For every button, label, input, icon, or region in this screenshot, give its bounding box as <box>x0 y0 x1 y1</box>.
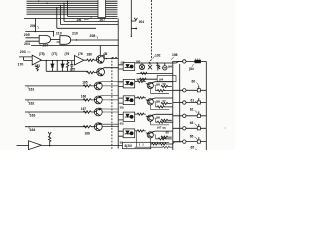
label 173 <box>35 64 41 68</box>
label 164 <box>30 128 36 132</box>
label 175b <box>70 68 75 72</box>
pad P6 <box>197 140 200 143</box>
svg-text:63: 63 <box>190 121 194 125</box>
label 205 <box>24 33 30 37</box>
svg-text:65: 65 <box>191 146 195 150</box>
wire Q1 collector to rail <box>102 55 119 59</box>
label 60 <box>192 79 196 83</box>
svg-text:164: 164 <box>30 128 36 132</box>
svg-text:205: 205 <box>24 33 30 37</box>
left rail of coupler column <box>117 19 119 149</box>
label 210 right <box>72 32 78 36</box>
svg-text:(99: (99 <box>156 116 161 120</box>
pad P5 <box>197 127 200 130</box>
NAND gate U2 <box>60 36 71 45</box>
label 210 left <box>56 31 62 35</box>
op-amp A3 <box>29 141 42 150</box>
op-amp A2 <box>75 56 84 66</box>
label 57 <box>163 99 167 103</box>
svg-text:(67: (67 <box>157 126 162 130</box>
label 199 row4 <box>156 116 161 120</box>
driver block B201 <box>123 142 151 148</box>
label 207 under box <box>100 18 106 22</box>
svg-text:165: 165 <box>82 81 88 85</box>
label 206 <box>30 24 36 28</box>
svg-text:204: 204 <box>24 42 30 46</box>
gate U2 input stub <box>57 41 60 43</box>
input line 162 <box>25 99 87 101</box>
resistor row1a <box>141 72 148 74</box>
label 65 bottom <box>191 146 195 150</box>
node dots on interamp wire <box>46 60 69 61</box>
label 168 <box>85 131 91 135</box>
transistor Q1 <box>96 55 104 63</box>
svg-text:204: 204 <box>139 20 145 24</box>
op-amp A1 input wires <box>19 57 32 61</box>
wire bend row y21.4 <box>64 3 118 21</box>
label 198 row2 <box>156 82 161 86</box>
coupler tiny labels <box>120 60 125 144</box>
bus line 2 <box>27 2 118 4</box>
label 198 <box>172 53 178 57</box>
row1 sub wire a <box>137 72 173 74</box>
svg-text:(77): (77) <box>52 52 58 56</box>
terminal T3 <box>183 101 186 104</box>
wire bend x67.5 <box>67 1 69 16</box>
terminal T6 <box>183 140 186 143</box>
svg-text:(75: (75 <box>70 68 75 72</box>
label 180 <box>87 52 93 56</box>
optocoupler row 3 <box>119 96 135 105</box>
shunt wire x46.2 <box>45 61 47 72</box>
row1 output wire <box>135 61 183 63</box>
junction dots on bus <box>38 1 68 9</box>
right network row2 <box>135 80 173 93</box>
label 184 <box>189 67 194 71</box>
shunt diode D2 <box>61 61 64 72</box>
terminal T5 <box>183 127 186 130</box>
svg-text:59: 59 <box>163 82 167 86</box>
shunt wire x57.2 <box>56 61 58 72</box>
svg-text:210: 210 <box>72 32 78 36</box>
common rail <box>46 70 87 72</box>
svg-text:(90: (90 <box>136 60 141 64</box>
wire Q161 out <box>100 82 119 86</box>
svg-text:208: 208 <box>90 34 96 38</box>
wire A3 out <box>42 144 123 146</box>
svg-text:(76: (76 <box>78 52 83 56</box>
shunt resistor 179 <box>66 61 68 72</box>
fuse F1 (filled) <box>195 60 201 63</box>
pad P4 <box>197 114 200 117</box>
svg-text:59): 59) <box>120 105 124 109</box>
label 65 top <box>190 134 194 138</box>
wire Q162 out <box>100 96 119 100</box>
wire bend row y24.4 <box>60 6 118 25</box>
svg-text:65: 65 <box>166 130 170 134</box>
inner rail <box>179 64 181 142</box>
input line 161 <box>25 85 87 87</box>
bus line 3 <box>27 5 118 7</box>
label 163 <box>30 114 36 118</box>
right network row5 <box>135 130 173 143</box>
svg-text:(79: (79 <box>65 52 70 56</box>
svg-text:(84: (84 <box>189 67 194 71</box>
gate U1 inputs <box>26 38 40 41</box>
bus line 1 <box>27 0 118 2</box>
tap wire x53.4 <box>52 32 54 37</box>
label 203 <box>20 50 26 54</box>
svg-text:162: 162 <box>29 101 35 105</box>
resistor R-a2 <box>84 59 97 61</box>
terminal T2 <box>183 89 186 92</box>
label 190 <box>136 60 141 64</box>
svg-text:210: 210 <box>56 31 62 35</box>
row1 sub wire b <box>137 78 158 80</box>
label 165 <box>82 81 88 85</box>
svg-text:(96: (96 <box>168 65 173 69</box>
wire U1 to U2 <box>51 38 60 40</box>
svg-text:60): 60) <box>120 121 124 125</box>
resistor R163 <box>83 111 94 113</box>
svg-text:180: 180 <box>87 52 93 56</box>
bottom op-amp A3 input <box>17 145 29 147</box>
label 177 <box>52 52 58 56</box>
interrow resistor r3 <box>161 102 172 104</box>
svg-text:(75): (75) <box>39 52 45 56</box>
bus line 8 <box>68 15 118 17</box>
optocoupler row 4 <box>119 112 135 121</box>
row5 lower wires <box>135 131 173 148</box>
label 176 <box>78 52 83 56</box>
label 65 row5 <box>166 130 170 134</box>
bus line 4 <box>27 7 118 9</box>
mid rail <box>172 61 174 150</box>
label 192 <box>155 54 161 58</box>
pad P3 <box>197 101 200 104</box>
NAND gate U1 <box>39 35 50 43</box>
dashed boundary mid <box>112 58 118 150</box>
right rail <box>205 61 207 150</box>
label 161 <box>29 87 35 91</box>
label 167 <box>81 107 87 111</box>
bus line 5 <box>27 9 118 11</box>
label 63 <box>190 121 194 125</box>
antenna input wire <box>130 0 132 36</box>
shunt capacitor <box>70 61 73 72</box>
wire Q2 to rail <box>102 67 118 70</box>
bus line 6 <box>27 11 118 13</box>
label 166 <box>81 95 87 99</box>
wire node row y31.6 <box>25 31 53 33</box>
Q1 emitter arrow <box>101 61 102 62</box>
svg-text:167: 167 <box>81 107 87 111</box>
svg-text:(98: (98 <box>156 82 161 86</box>
bottom block output <box>151 142 182 145</box>
optocoupler row 5 <box>119 129 135 138</box>
input line 163 <box>25 111 87 113</box>
svg-text:168: 168 <box>85 131 91 135</box>
label 198 row3 <box>156 99 161 103</box>
branch with dot <box>131 28 136 30</box>
transistor Q161 <box>94 82 102 90</box>
svg-text:192: 192 <box>155 54 161 58</box>
pullup resistor w arrow <box>48 132 51 146</box>
svg-text:8(20l: 8(20l <box>125 144 132 148</box>
svg-text:61: 61 <box>191 99 195 103</box>
svg-text:(36: (36 <box>121 60 125 64</box>
optocoupler row 2 <box>119 80 135 88</box>
label 204 (antenna) <box>139 20 145 24</box>
shunt diode D1 <box>51 61 54 72</box>
svg-text:57: 57 <box>163 99 167 103</box>
interrow resistor r4 <box>161 119 172 121</box>
label 207 (gate) <box>43 43 49 47</box>
label 61 <box>191 99 195 103</box>
row1 regulator network <box>139 63 167 71</box>
op-amp A1 <box>32 55 41 65</box>
right network row3 <box>135 97 173 110</box>
pad P2 <box>197 89 200 92</box>
vertical from wire45 to Q1 <box>99 46 101 56</box>
resistor under A1 <box>36 65 38 71</box>
svg-text:203: 203 <box>20 50 26 54</box>
label 196 <box>168 65 173 69</box>
transistor Q163 <box>94 108 102 116</box>
transistor Q162 <box>94 96 102 104</box>
label 62 <box>190 108 194 112</box>
svg-text:161: 161 <box>29 87 35 91</box>
svg-text:(98: (98 <box>156 99 161 103</box>
svg-text:2l6: 2l6 <box>77 18 82 22</box>
fly speck <box>225 128 226 129</box>
resistor row1b <box>140 78 147 80</box>
svg-text:198: 198 <box>172 53 178 57</box>
interrow resistor r5 <box>161 136 172 138</box>
resistor R164 <box>83 126 94 128</box>
label 208 <box>90 34 96 38</box>
wire Q163 out <box>100 108 119 112</box>
terminal T1 <box>183 60 186 63</box>
resistor R161 <box>83 85 94 87</box>
svg-text:166: 166 <box>81 95 87 99</box>
label 162 <box>29 101 35 105</box>
resistor R-b <box>87 71 97 74</box>
wire U2 output <box>71 39 119 41</box>
label 170 <box>18 62 24 66</box>
wire A1 to A2 <box>41 60 74 62</box>
transistor Q2 <box>97 68 105 76</box>
wire row y45.5 <box>31 45 119 47</box>
input line 164 <box>25 126 87 128</box>
connector box 217 <box>98 0 106 18</box>
wire end dot <box>131 36 132 37</box>
dashed boundary 192 <box>149 0 152 62</box>
tap wire x35.4 <box>34 19 36 32</box>
right network row4 <box>135 113 173 125</box>
bus line 7 <box>27 13 118 15</box>
interrow resistor r2 <box>161 85 172 87</box>
svg-text:163: 163 <box>30 114 36 118</box>
label 181 <box>104 52 108 56</box>
svg-text:62: 62 <box>190 108 194 112</box>
label 179 <box>65 52 70 56</box>
network box 194 <box>157 76 176 82</box>
branch with Y arrow <box>131 18 137 21</box>
label 55 <box>163 126 167 130</box>
wire bend row y28.3 <box>57 8 96 29</box>
optocoupler row 1 <box>119 63 135 71</box>
svg-text:170: 170 <box>18 62 24 66</box>
resistor R162 <box>83 99 94 101</box>
terminal T4 <box>183 114 186 117</box>
label 59 <box>163 82 167 86</box>
svg-text:207: 207 <box>100 18 106 22</box>
wire Q164 out <box>100 123 119 127</box>
label 167 row5 <box>157 126 162 130</box>
label 175 <box>39 52 45 56</box>
Q2 emitter arrow <box>101 74 102 75</box>
svg-text:55: 55 <box>163 126 167 130</box>
label 216 <box>77 18 82 22</box>
label 204 (wire) <box>24 42 30 46</box>
svg-text:173: 173 <box>35 64 41 68</box>
bus line 9 <box>24 18 118 20</box>
svg-text:60: 60 <box>192 79 196 83</box>
svg-text:(94: (94 <box>159 77 164 81</box>
transistor Q164 <box>94 123 102 131</box>
svg-text:65: 65 <box>190 134 194 138</box>
